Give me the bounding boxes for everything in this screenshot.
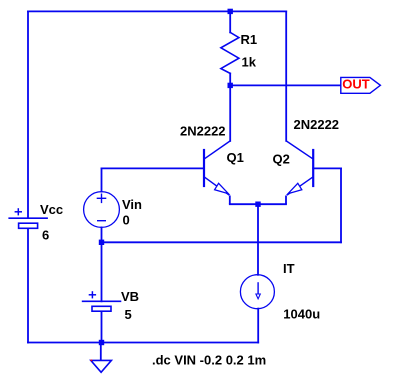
svg-text:2N2222: 2N2222 [294, 117, 340, 132]
wire IT top lead [257, 204, 259, 275]
wire left rail lower (Vcc minus to ground rail) [27, 228, 29, 342]
svg-text:5: 5 [125, 307, 132, 322]
voltage source Vin (circle symbol) [84, 192, 120, 228]
wire R1 bottom lead [229, 73, 231, 85]
wire top rail (Vcc to Q2 collector feed) [28, 10, 286, 12]
voltage source Vcc (battery symbol) [8, 208, 48, 228]
wire Q2 base lead [313, 167, 341, 169]
wire Vin plus to Q1 base [102, 167, 205, 169]
current source IT (circle with arrow) [240, 275, 274, 309]
svg-text:VB: VB [121, 289, 139, 304]
wire VB top lead [101, 242, 103, 301]
wire VB bottom lead [101, 311, 103, 342]
svg-text:1040u: 1040u [283, 307, 320, 322]
node junction dot: common emitters / IT top [255, 202, 260, 207]
wire bottom ground rail [28, 342, 258, 344]
svg-text:2N2222: 2N2222 [180, 124, 226, 139]
svg-text:Vin: Vin [122, 197, 142, 212]
wire IT bottom lead [257, 309, 259, 343]
transistor Q1 [204, 141, 230, 204]
svg-text:Q2: Q2 [273, 152, 290, 167]
svg-text:OUT: OUT [342, 77, 370, 92]
voltage source VB (battery symbol) [82, 291, 122, 311]
svg-text:0: 0 [123, 213, 130, 228]
svg-text:R1: R1 [241, 32, 258, 47]
transistor Q2 [286, 141, 313, 204]
ground symbol [91, 360, 112, 373]
svg-text:Vcc: Vcc [40, 202, 63, 217]
svg-text:IT: IT [283, 261, 295, 276]
svg-text:.dc VIN -0.2 0.2 1m: .dc VIN -0.2 0.2 1m [152, 353, 266, 368]
wire R1 top lead [229, 11, 231, 32]
node junction dot: Vin minus x mid rail [99, 240, 104, 245]
wire OUT net (R1 bottom to OUT flag) [230, 84, 341, 86]
wire Vin bottom lead [101, 227, 103, 242]
wire Vin top lead [101, 168, 103, 191]
wire Q2 collector vertical [285, 11, 287, 141]
wire mid rail (Vin minus to Q2 base loop) [102, 241, 342, 243]
wire left rail upper (top rail to Vcc battery +) [27, 11, 29, 218]
svg-text:6: 6 [42, 228, 49, 243]
resistor R1 body [221, 32, 239, 73]
svg-text:Q1: Q1 [227, 150, 244, 165]
svg-text:1k: 1k [242, 54, 257, 69]
wire common emitter horizontal [230, 203, 286, 205]
node junction dot: VB minus x ground rail [99, 340, 104, 345]
wire Q1 collector vertical [229, 85, 231, 140]
wire ground stem [100, 343, 102, 361]
net flag OUT [341, 77, 381, 94]
node junction dot: R1 bottom / OUT / Q1 collector [228, 83, 233, 88]
wire right vertical (mid rail up to Q2 base) [340, 168, 342, 242]
node junction dot: top rail x R1 [228, 9, 233, 14]
